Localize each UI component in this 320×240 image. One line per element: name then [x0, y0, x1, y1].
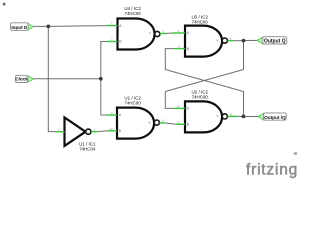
svg-text:B: B	[187, 47, 190, 51]
node: Clock junction	[99, 77, 103, 81]
wire: Input D flag to junction then to U4 pin A	[33, 25, 107, 28]
pin stub U2 Y	[227, 115, 237, 117]
svg-text:74HC00: 74HC00	[125, 11, 142, 16]
pin stub U2 B	[176, 123, 185, 125]
wire: U4 output to U3 pin A	[167, 32, 172, 34]
svg-text:74HC04: 74HC04	[79, 147, 96, 152]
svg-text:A: A	[187, 31, 190, 35]
wire: U2 output to Output /Q flag	[238, 115, 259, 117]
pin stub inverter output	[91, 131, 98, 133]
svg-text:Y: Y	[148, 121, 151, 125]
origin marker	[3, 3, 6, 6]
wire: U3 pin B cross-coupled feedback from Output /Q node	[165, 49, 243, 117]
nand gate U2 (74HC00) body	[185, 101, 227, 132]
pin stub U3 Y	[227, 40, 233, 42]
pin stub inverter input	[57, 131, 65, 133]
net flag Output Q	[257, 37, 287, 45]
svg-text:Output Q: Output Q	[264, 39, 286, 45]
wire: Input D junction down and right to inverter U1/IC1 input	[48, 26, 57, 131]
svg-text:Clock: Clock	[15, 77, 28, 82]
svg-text:A: A	[119, 113, 122, 117]
svg-text:fritzing: fritzing	[246, 162, 298, 179]
svg-text:B: B	[119, 129, 122, 133]
svg-text:Y: Y	[216, 39, 219, 43]
inverter U1 / IC1 (74HC04) body	[65, 118, 91, 146]
pin stub U4 B	[107, 41, 118, 43]
svg-text:B: B	[119, 40, 122, 44]
wire: inverter U1/IC1 output to U1 pin B	[98, 130, 108, 133]
wire: Output Q node cross-coupled feedback to U2 pin A	[165, 41, 243, 109]
net flag Output /Q	[258, 113, 286, 120]
pin stub U1 Y	[159, 122, 165, 124]
svg-text:Output /Q: Output /Q	[264, 115, 286, 120]
node: Input D junction	[46, 25, 50, 29]
wire: Clock flag to junction	[34, 78, 101, 80]
nand gate U1 (74HC00) body	[117, 108, 159, 139]
node: Output Q junction	[242, 39, 246, 43]
pin stub U2 A	[175, 107, 185, 109]
wire: Clock junction up to U4 pin B	[101, 42, 107, 79]
pin stub U3 A	[172, 32, 185, 34]
nand gate U4 (74HC00) body	[118, 19, 160, 50]
wire: U3 output to Output Q flag	[234, 39, 258, 41]
nand gate U3 (74HC00) body	[185, 26, 227, 57]
pin stub U1 A	[107, 114, 117, 116]
svg-text:12: 12	[177, 104, 181, 108]
svg-text:A: A	[119, 24, 122, 28]
svg-text:74HC00: 74HC00	[125, 101, 142, 106]
svg-text:Y: Y	[149, 32, 152, 36]
wire: U1 output to U2 pin B	[166, 123, 177, 124]
svg-text:74HC00: 74HC00	[192, 20, 209, 25]
svg-text:8: 8	[162, 119, 164, 123]
wire: Clock junction down to U1 pin A	[101, 79, 107, 115]
svg-text:10: 10	[110, 127, 114, 131]
svg-text:B: B	[187, 123, 190, 127]
svg-text:2: 2	[94, 128, 96, 132]
pin stub U1 B	[108, 130, 118, 132]
net flag Clock	[15, 75, 34, 82]
svg-text:A: A	[187, 107, 190, 111]
svg-text:13: 13	[177, 120, 181, 124]
pin stub U3 B	[175, 48, 185, 50]
svg-text:Input D: Input D	[11, 25, 28, 30]
fritzing watermark	[246, 152, 298, 179]
svg-text:Y: Y	[216, 115, 219, 119]
net flag Input D	[11, 23, 34, 31]
svg-text:74HC00: 74HC00	[192, 95, 209, 100]
pin stub U4 Y	[160, 33, 167, 35]
svg-text:1: 1	[58, 128, 60, 132]
node: Output /Q junction	[242, 115, 246, 119]
svg-text:11: 11	[230, 112, 233, 116]
pin stub U4 A	[107, 25, 118, 27]
